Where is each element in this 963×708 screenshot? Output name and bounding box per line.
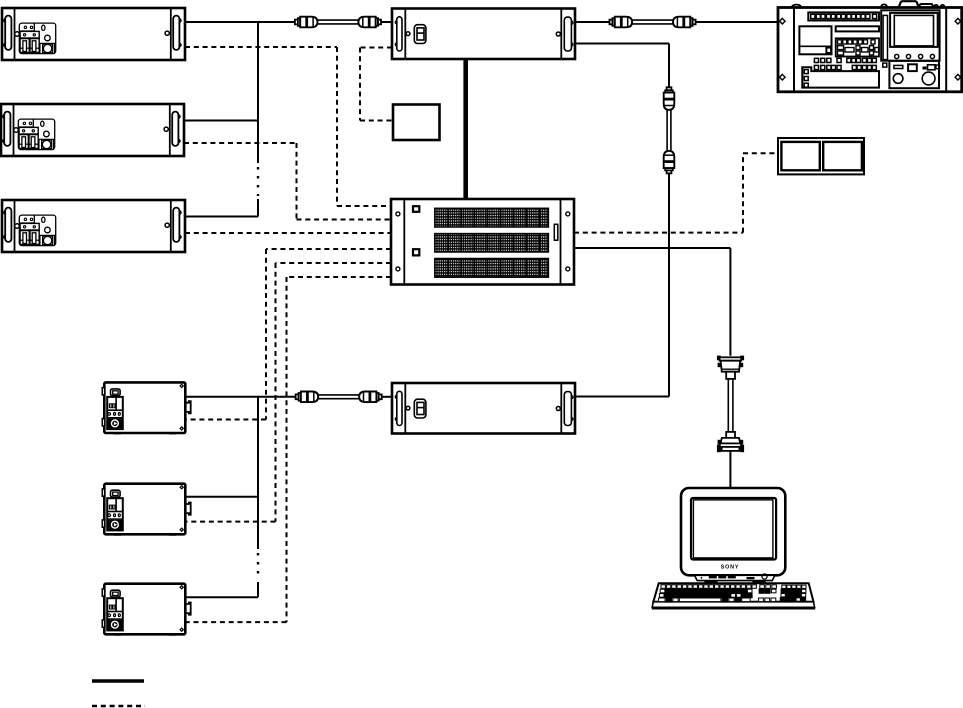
wire camera solid bus lower <box>257 582 259 597</box>
wire rack3 dashed output <box>185 232 391 234</box>
cable assembly top box to console <box>610 17 696 28</box>
top interface box <box>392 9 575 60</box>
wire dashed top box to sync unit <box>360 48 393 121</box>
computer monitor <box>681 488 785 584</box>
camera control unit 2 <box>102 484 190 536</box>
console lower panel <box>802 67 879 87</box>
wire rack solid bus dotted continuation <box>257 167 259 196</box>
keyboard keys <box>659 585 806 602</box>
cable assembly camera-cable to top box <box>295 17 381 28</box>
wire top box right output 1 <box>575 21 609 23</box>
wire rack3 solid output <box>185 216 258 218</box>
cable assembly vertical optical cable <box>664 87 675 173</box>
D-sub connector lower <box>717 432 744 452</box>
wire camera2 solid output <box>185 496 258 498</box>
rack unit 1 <box>2 8 185 60</box>
wire patch bay dashed to camera 2 <box>186 263 391 522</box>
wire vertical cable down to lower box <box>575 174 669 397</box>
D-sub connector upper <box>717 356 744 379</box>
picture monitors dual box <box>778 138 864 174</box>
wire top box right output 2 <box>575 44 669 87</box>
patch bay unit <box>391 199 574 285</box>
console top button bar <box>808 12 879 20</box>
wire patch bay solid to data monitor <box>574 248 730 356</box>
console corner screws <box>780 18 786 24</box>
console button row A <box>814 58 876 62</box>
wire rack2 solid output <box>184 120 258 122</box>
wire cable1 to top box <box>382 21 392 23</box>
computer keyboard <box>652 583 815 609</box>
rack unit 2 <box>1 104 184 156</box>
editing console <box>778 1 962 92</box>
wire camera solid bus vertical <box>257 397 259 549</box>
wire D-sub to computer monitor <box>729 451 731 489</box>
wire camera solid bus dotted continuation <box>257 553 259 579</box>
wire camera3 solid output <box>185 596 258 598</box>
legend dashed line <box>92 705 145 708</box>
camera control unit 1 <box>102 382 190 434</box>
wire D-sub cable <box>728 379 733 432</box>
wire rack1 dashed output <box>185 47 391 206</box>
wire rack solid bus vertical <box>257 22 259 163</box>
sync unit small box <box>393 105 440 141</box>
wire rack2 dashed output <box>184 143 391 220</box>
console transport section <box>889 61 939 88</box>
wire cable to console <box>696 21 778 23</box>
wire patch bay dashed to camera 1 <box>186 249 391 420</box>
console button row B <box>814 65 876 69</box>
console display <box>799 26 831 54</box>
legend solid line <box>92 679 144 682</box>
cable assembly camera cable to lower box <box>296 392 382 403</box>
wire cable2 to lower box <box>382 396 392 398</box>
wire rack1 solid output <box>185 21 295 23</box>
wire rack solid bus lower <box>257 199 259 217</box>
camera control unit 3 <box>102 584 190 636</box>
console frame <box>778 8 962 92</box>
console monitor section <box>881 10 939 60</box>
wire camera1 solid output <box>185 396 295 398</box>
wire patch bay dashed to camera 3 <box>186 277 391 622</box>
console top bumps <box>792 5 802 8</box>
lower interface box <box>392 383 575 434</box>
svg-text:SONY: SONY <box>721 565 739 571</box>
wire patch bay dashed to picture monitors <box>574 153 778 232</box>
console keypad cluster <box>836 38 879 56</box>
console title strip <box>836 26 879 31</box>
console small square <box>883 63 887 67</box>
wire thick video bus top box to patch bay <box>463 59 468 199</box>
rack unit 3 <box>2 200 185 252</box>
